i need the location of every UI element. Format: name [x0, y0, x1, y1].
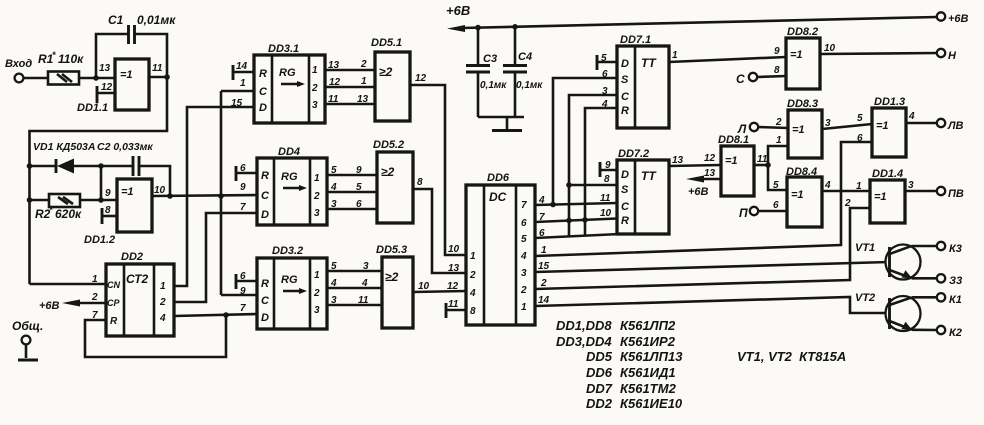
svg-text:7: 7: [521, 200, 527, 211]
+6В terminal top right: [937, 12, 969, 25]
svg-text:DD3.2: DD3.2: [272, 245, 303, 257]
wire DD7.1 out to DD8.2 in9: [669, 57, 786, 62]
wire DD6 pin2 long bus to DD1.4 in2: [535, 208, 870, 289]
transistor VT2 КТ815А: [855, 292, 921, 331]
wire DD3.1 out3 to DD5.1: [325, 103, 375, 106]
svg-text:+6В: +6В: [446, 3, 470, 18]
wire DD6 pin15 long bus to VT1 base: [535, 262, 889, 272]
transistor VT1 КТ815А: [855, 242, 921, 280]
svg-text:2: 2: [313, 288, 320, 299]
svg-text:DD8.2: DD8.2: [787, 26, 818, 38]
svg-text:S: S: [621, 184, 629, 196]
svg-text:7: 7: [240, 303, 246, 314]
svg-text:RG: RG: [281, 274, 298, 286]
node C3 on rail: [475, 25, 481, 31]
svg-text:CP: CP: [107, 298, 120, 308]
pin 8 stub with tick: [102, 208, 117, 224]
+6В feed to DD2 CP: [39, 300, 106, 313]
svg-text:12: 12: [447, 281, 459, 292]
svg-text:5: 5: [331, 261, 337, 272]
terminal К3: [937, 242, 962, 255]
wire R2 to DD1.2 pin9: [80, 199, 117, 202]
svg-text:11: 11: [152, 63, 163, 74]
svg-text:13: 13: [704, 168, 716, 179]
svg-text:1: 1: [361, 76, 367, 87]
svg-text:D: D: [621, 58, 629, 70]
svg-text:5: 5: [521, 234, 527, 245]
svg-text:C: C: [621, 91, 630, 103]
svg-text:*: *: [52, 50, 56, 60]
svg-text:12: 12: [704, 153, 716, 164]
svg-text:2: 2: [469, 270, 476, 281]
terminal С: [736, 72, 786, 86]
wire VD1 to C2: [74, 165, 133, 168]
svg-text:R: R: [259, 68, 267, 80]
svg-text:11: 11: [600, 193, 611, 204]
majority element DD5.3: [376, 244, 413, 328]
svg-text:10: 10: [154, 185, 166, 196]
svg-text:=1: =1: [874, 191, 887, 203]
wire VT2 collector to К1: [912, 296, 937, 299]
wire R2 row from bus: [30, 199, 50, 202]
svg-text:4: 4: [469, 288, 476, 299]
wire DD1.4 out to ПВ: [905, 190, 937, 193]
svg-text:К561ТМ2: К561ТМ2: [620, 381, 677, 396]
svg-text:+6В: +6В: [688, 186, 709, 198]
parts list text: [556, 318, 846, 411]
svg-text:2: 2: [520, 285, 527, 296]
wire DD7.2 S stub: [569, 184, 617, 187]
svg-text:110к: 110к: [58, 52, 84, 66]
node VD1/DD1.2 branch: [98, 163, 104, 169]
svg-text:C: C: [259, 86, 268, 98]
DD7.1 D stub with tick: [597, 55, 617, 70]
resistor R2 620к: [35, 194, 82, 221]
terminal ЛВ: [937, 119, 964, 132]
terminal К2: [937, 326, 962, 339]
wire vertical DD7.1 R branch: [585, 108, 617, 236]
svg-text:9: 9: [240, 286, 246, 297]
svg-text:TT: TT: [641, 56, 657, 70]
svg-text:VT1, VT2 КТ815А: VT1, VT2 КТ815А: [737, 349, 846, 364]
svg-text:1: 1: [314, 270, 320, 281]
op element DD1.2 (=1): [84, 179, 152, 246]
wire R1 to DD1.1 pin13: [79, 77, 115, 80]
svg-text:14: 14: [236, 61, 248, 72]
svg-text:12: 12: [329, 77, 341, 88]
svg-text:=1: =1: [790, 49, 803, 61]
wire DD3.1 out2 to DD5.1: [325, 86, 375, 89]
wire DD8.3 out to DD1.3: [822, 124, 872, 129]
op element DD8.1 (=1): [718, 134, 754, 196]
svg-text:13: 13: [357, 94, 369, 105]
wire DD1.1 output down-left to left bus: [30, 77, 168, 284]
terminal ПВ: [937, 187, 964, 200]
svg-text:3: 3: [602, 86, 608, 97]
svg-text:DD2: DD2: [121, 251, 143, 263]
register DD3.2 (RG): [257, 245, 327, 329]
svg-text:DD3.1: DD3.1: [268, 43, 299, 55]
wire DD1.3 out to ЛВ: [906, 122, 937, 125]
svg-text:9: 9: [774, 46, 780, 57]
svg-text:3: 3: [312, 100, 318, 111]
decoder DD6 (DC): [466, 172, 535, 325]
svg-text:6: 6: [773, 200, 779, 211]
wire DD2 out4 to DD3.2 D: [174, 314, 257, 316]
svg-text:DD3,DD4: DD3,DD4: [556, 334, 612, 349]
svg-text:DD5: DD5: [586, 349, 613, 364]
svg-text:10: 10: [824, 43, 836, 54]
svg-text:DD1,DD8: DD1,DD8: [556, 318, 612, 333]
svg-text:=1: =1: [120, 69, 133, 81]
svg-text:9: 9: [105, 188, 111, 199]
svg-text:DD7.1: DD7.1: [620, 34, 651, 46]
svg-text:2: 2: [91, 292, 98, 303]
wire DD3.2 out3 to DD5.3: [327, 304, 382, 307]
svg-text:4: 4: [330, 182, 337, 193]
svg-text:Н: Н: [948, 50, 957, 62]
capacitor C2 0,033мк: [97, 141, 153, 176]
svg-text:+6В: +6В: [948, 13, 969, 25]
svg-text:15: 15: [231, 98, 243, 109]
svg-text:1: 1: [521, 302, 527, 313]
svg-text:8: 8: [417, 177, 423, 188]
svg-text:6: 6: [356, 199, 362, 210]
svg-text:DD8.4: DD8.4: [786, 166, 817, 178]
node junction R1/C1: [93, 75, 99, 81]
svg-text:1: 1: [240, 78, 246, 89]
resistor R1 110к: [38, 50, 84, 85]
svg-text:+6В: +6В: [39, 300, 60, 312]
svg-text:D: D: [261, 209, 269, 221]
wire C1 feedback left leg: [96, 34, 128, 78]
svg-text:S: S: [621, 74, 629, 86]
capacitor C4 0,1мк: [503, 27, 543, 117]
svg-text:8: 8: [105, 205, 111, 216]
node C4 on rail: [512, 24, 518, 30]
svg-text:К561ЛП2: К561ЛП2: [620, 318, 676, 333]
svg-text:5: 5: [601, 53, 607, 64]
op element DD8.4 (=1): [786, 166, 822, 227]
svg-text:9: 9: [605, 160, 611, 171]
node R2/VD1 branch: [98, 197, 104, 203]
svg-text:RG: RG: [281, 171, 298, 183]
wire DD8.4 out to DD1.4: [822, 190, 870, 193]
terminal Н: [937, 49, 957, 62]
wire DD6 pin7 to DD7.2 R: [535, 219, 617, 223]
node C-branch on pin7 wire: [566, 218, 572, 224]
svg-text:DD1.4: DD1.4: [872, 168, 903, 180]
svg-text:3: 3: [314, 305, 320, 316]
majority element DD5.1: [371, 37, 410, 121]
svg-text:6: 6: [857, 133, 863, 144]
svg-text:DD1.2: DD1.2: [84, 234, 115, 246]
svg-text:VT2: VT2: [855, 292, 875, 304]
DD4 R stub with tick: [236, 166, 257, 181]
op element DD1.1 (=1): [77, 59, 149, 114]
svg-text:11: 11: [448, 299, 459, 310]
svg-text:6: 6: [602, 69, 608, 80]
op element DD1.3 (=1): [872, 96, 906, 157]
svg-text:13: 13: [448, 263, 460, 274]
wire DD4 out2 to DD5.2: [327, 191, 377, 194]
register DD3.1 (RG): [254, 43, 325, 123]
svg-text:≥2: ≥2: [381, 165, 395, 179]
node clock branch: [218, 193, 224, 199]
svg-text:=1: =1: [121, 186, 134, 198]
svg-text:0,1мк: 0,1мк: [516, 80, 543, 91]
wire vertical DD7.1 C branch: [569, 95, 617, 236]
svg-text:ЛВ: ЛВ: [947, 120, 964, 132]
svg-text:10: 10: [418, 281, 430, 292]
svg-text:3: 3: [331, 295, 337, 306]
svg-text:Общ.: Общ.: [12, 319, 43, 333]
svg-text:5: 5: [356, 182, 362, 193]
svg-text:CN: CN: [107, 280, 120, 290]
svg-text:TT: TT: [641, 169, 657, 183]
flip-flop DD7.1 (TT): [617, 34, 669, 128]
wire VT1 emitter to З3: [912, 277, 937, 280]
svg-text:R: R: [110, 316, 118, 327]
svg-text:К2: К2: [949, 327, 962, 339]
terminal Л: [737, 122, 788, 136]
wire DD2 out1 to DD3.1 D: [174, 107, 254, 286]
svg-text:7: 7: [240, 202, 246, 213]
node DD7.2 S junction: [566, 182, 572, 188]
svg-text:=1: =1: [791, 189, 804, 201]
svg-text:З3: З3: [949, 275, 962, 287]
svg-text:3: 3: [908, 180, 914, 191]
svg-text:1: 1: [856, 181, 862, 192]
svg-text:D: D: [259, 102, 267, 114]
input terminal Вход: [5, 58, 32, 82]
svg-text:8: 8: [470, 306, 476, 317]
counter DD2 (CT2): [106, 251, 174, 336]
wire clock to DD3.2 C: [221, 294, 257, 297]
svg-text:DD7: DD7: [586, 381, 613, 396]
wire DD1.1 output: [149, 76, 167, 79]
wire input to R1: [24, 77, 48, 80]
svg-text:Вход: Вход: [5, 58, 32, 70]
svg-text:≥2: ≥2: [385, 270, 399, 284]
majority element DD5.2: [373, 139, 413, 223]
svg-text:К561ИД1: К561ИД1: [620, 365, 676, 380]
svg-text:С4: С4: [518, 51, 532, 63]
wire DD3.2 out1 to DD5.3: [327, 270, 382, 273]
wire vertical DD7.1 S branch: [553, 78, 617, 205]
wire C2 right to DD1.2 output node: [139, 166, 170, 196]
wire DD6 pin6 under DD7.2: [535, 234, 620, 238]
svg-text:DD5.1: DD5.1: [371, 37, 402, 49]
svg-text:3: 3: [521, 268, 527, 279]
svg-text:9: 9: [240, 182, 246, 193]
wire DD7.2 out to DD8.1: [669, 165, 721, 166]
terminal З3: [937, 274, 962, 287]
terminal П: [739, 206, 787, 220]
svg-text:C: C: [261, 190, 270, 202]
node bus/R2: [27, 197, 33, 203]
wire VT2 emitter to К2: [912, 328, 937, 331]
wire DD5.3 out to DD6 in4: [413, 291, 466, 292]
svg-text:С: С: [736, 72, 745, 86]
svg-text:3: 3: [363, 261, 369, 272]
svg-text:1: 1: [470, 251, 476, 262]
wire DD5.2 out to DD6 in2: [413, 189, 466, 273]
svg-text:D: D: [621, 169, 629, 181]
svg-text:10: 10: [448, 244, 460, 255]
svg-text:4: 4: [601, 99, 608, 110]
svg-text:К1: К1: [949, 294, 962, 306]
wire DD2 R reset loop: [85, 315, 226, 357]
svg-text:5: 5: [773, 180, 779, 191]
ground symbol under C3 C4: [478, 117, 524, 131]
svg-text:=1: =1: [876, 120, 889, 132]
svg-text:11: 11: [358, 295, 369, 306]
svg-text:К3: К3: [949, 243, 962, 255]
wire clock to DD3.1 C: [221, 90, 254, 93]
svg-text:0,01мк: 0,01мк: [137, 13, 176, 27]
wire DD3.1 out1 to DD5.1: [325, 69, 375, 72]
terminal К1: [937, 293, 962, 306]
svg-text:1: 1: [160, 281, 166, 292]
svg-text:К561ЛП13: К561ЛП13: [620, 349, 683, 364]
DD3.2 R stub with tick: [236, 274, 257, 289]
diode VD1 КД503А: [33, 141, 95, 174]
svg-text:3: 3: [314, 208, 320, 219]
svg-text:2: 2: [313, 191, 320, 202]
svg-text:2: 2: [540, 278, 547, 289]
svg-text:К561ИР2: К561ИР2: [620, 334, 676, 349]
capacitor C1 0,01мк: [108, 13, 176, 44]
wire DD8.2 out to Н: [820, 53, 937, 54]
svg-text:=1: =1: [725, 155, 738, 167]
svg-text:12: 12: [101, 82, 113, 93]
svg-text:1: 1: [312, 65, 318, 76]
svg-text:DD1.1: DD1.1: [77, 102, 108, 114]
svg-text:3: 3: [331, 199, 337, 210]
pin 12 stub with tick: [97, 86, 115, 103]
svg-text:RG: RG: [279, 67, 296, 79]
svg-text:R: R: [261, 278, 269, 290]
wire DD8.1 out fan: [754, 146, 788, 190]
node R-branch on pin7 wire: [582, 217, 588, 223]
svg-text:11: 11: [328, 94, 339, 105]
wire DD5.1 out to DD6 in1: [410, 85, 466, 255]
svg-text:2: 2: [159, 297, 166, 308]
svg-text:DD2: DD2: [586, 396, 613, 411]
node DD1.1 output: [164, 74, 170, 80]
svg-text:5: 5: [331, 165, 337, 176]
svg-text:Л: Л: [737, 122, 747, 136]
svg-text:С1: С1: [108, 13, 124, 27]
svg-text:1: 1: [672, 50, 678, 61]
svg-text:13: 13: [672, 155, 684, 166]
wire left bus to DD2 CN: [30, 283, 107, 286]
svg-text:10: 10: [600, 208, 612, 219]
svg-text:DD4: DD4: [278, 146, 300, 158]
svg-text:13: 13: [328, 60, 340, 71]
op element DD1.4 (=1): [870, 168, 905, 223]
svg-text:С2 0,033мк: С2 0,033мк: [97, 141, 153, 153]
svg-text:C: C: [261, 295, 270, 307]
node reset loop on out4 wire: [223, 312, 229, 318]
svg-text:6: 6: [521, 218, 527, 229]
wire DD4 out3 to DD5.2: [327, 208, 377, 211]
svg-text:R: R: [621, 215, 629, 227]
svg-text:≥2: ≥2: [379, 65, 393, 79]
flip-flop DD7.2 (TT): [617, 148, 669, 234]
register DD4 (RG): [257, 146, 327, 225]
svg-text:1: 1: [314, 173, 320, 184]
node S-branch on pin4 wire: [550, 202, 556, 208]
svg-text:4: 4: [824, 180, 831, 191]
svg-text:ПВ: ПВ: [948, 188, 964, 200]
svg-text:2: 2: [360, 59, 367, 70]
wire DD6 pin1 long bus to DD1.3 branch: [535, 142, 872, 256]
op element DD8.3 (=1): [787, 98, 822, 158]
svg-text:DD5.3: DD5.3: [376, 244, 407, 256]
wire DD6 pin14 long bus to VT2 base: [535, 297, 889, 313]
svg-text:9: 9: [356, 165, 362, 176]
svg-text:К561ИЕ10: К561ИЕ10: [620, 396, 683, 411]
DD6 pin 11 stub with tick: [446, 303, 466, 318]
svg-text:2: 2: [844, 198, 851, 209]
svg-text:DC: DC: [489, 190, 507, 204]
svg-text:4: 4: [361, 278, 368, 289]
svg-text:13: 13: [99, 63, 111, 74]
svg-text:VT1: VT1: [855, 242, 875, 254]
svg-text:СТ2: СТ2: [126, 272, 149, 286]
svg-text:DD7.2: DD7.2: [618, 148, 649, 160]
svg-text:П: П: [739, 206, 748, 220]
wire VT1 collector to К3: [912, 245, 937, 248]
svg-text:4: 4: [520, 251, 527, 262]
svg-text:8: 8: [774, 65, 780, 76]
wire DD1.2 output to registers C inputs: [152, 195, 257, 196]
svg-text:DD6: DD6: [586, 365, 613, 380]
wire VD1 row from bus: [30, 165, 57, 168]
DD7.2 D stub with tick: [600, 162, 617, 177]
DD3.1 R stub with tick: [233, 65, 254, 80]
wire DD6 pin4 to DD7.2 C: [535, 203, 617, 205]
svg-text:DD5.2: DD5.2: [373, 139, 404, 151]
capacitor C3 0,1мк: [466, 28, 507, 117]
svg-text:C: C: [621, 201, 630, 213]
svg-text:2: 2: [311, 83, 318, 94]
svg-text:R: R: [261, 170, 269, 182]
op element DD8.2 (=1): [786, 26, 820, 89]
wire clock vertical bus: [220, 91, 223, 295]
wire DD3.2 out2 to DD5.3: [327, 287, 382, 290]
svg-text:5: 5: [857, 113, 863, 124]
wire C1 feedback right leg: [135, 34, 168, 77]
svg-text:8: 8: [604, 174, 610, 185]
svg-text:4: 4: [908, 111, 915, 122]
svg-text:С3: С3: [483, 53, 497, 65]
node C2/output: [167, 193, 173, 199]
wire branch down to R2 row: [100, 166, 103, 200]
svg-text:VD1 КД503А: VD1 КД503А: [33, 141, 95, 153]
node bus/VD1: [27, 163, 33, 169]
svg-text:12: 12: [415, 73, 427, 84]
power rail +6В top: [446, 3, 937, 32]
svg-text:620к: 620к: [55, 207, 82, 221]
svg-text:D: D: [261, 312, 269, 324]
svg-text:1: 1: [776, 135, 782, 146]
wire DD2 out2 to DD4 D: [174, 213, 257, 302]
svg-text:=1: =1: [792, 124, 805, 136]
svg-text:R: R: [621, 105, 629, 117]
